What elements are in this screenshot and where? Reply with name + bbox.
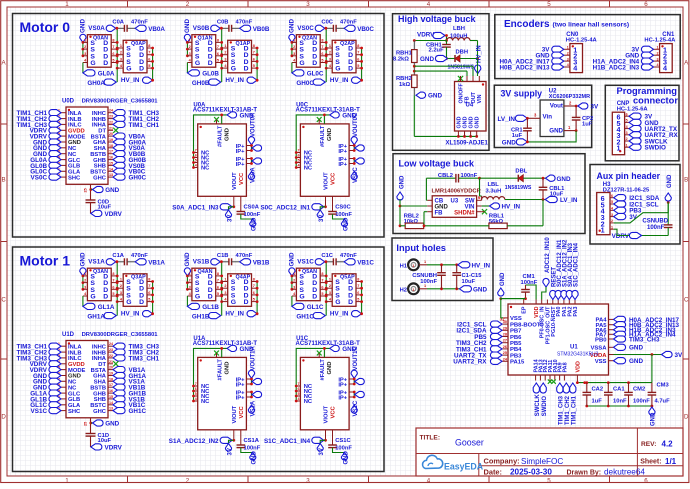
svg-text:10uF: 10uF [462,279,476,285]
frame row letters [1,60,689,421]
section box 3V supply [494,85,591,147]
net flag PB3 at H3 pin 4 [614,207,642,215]
svg-text:GND: GND [629,345,643,352]
svg-text:VS1A: VS1A [88,259,105,266]
svg-text:2: 2 [186,478,190,485]
capacitor CBL2 100nF [438,173,480,183]
net flag H1B_ADC2_IN3 at U1 right [614,327,677,335]
section box Motor 1 [13,247,385,472]
resistor RBL2 10k [404,214,424,229]
svg-text:7: 7 [298,382,300,386]
wire IP+ pins upper pair U1A [250,378,262,386]
net flag VB1A [135,259,165,267]
section title Input holes [396,243,446,253]
net flag VS1C [351,400,359,416]
svg-text:4: 4 [567,63,569,67]
power flag GND above snubber [665,174,673,203]
net flag VB0A at U0D pin 20 [113,133,146,141]
svg-text:GND: GND [549,128,563,135]
svg-text:8: 8 [357,278,359,282]
svg-text:VSS: VSS [510,316,522,322]
svg-text:7: 7 [195,382,197,386]
svg-text:VOUT1A: VOUT1A [250,345,256,370]
svg-text:GND: GND [428,93,442,100]
net flag GL0A at U0D pin 9 [30,157,61,165]
wire VDDA to 3V [614,353,662,356]
svg-text:1N5819WS: 1N5819WS [505,185,532,191]
net flag VOUT0A [248,112,256,145]
svg-text:PB7: PB7 [510,329,522,335]
no-connect mark at U0D DT pin [113,128,118,133]
net flag VS1A at U1D pin 18 [113,378,145,386]
svg-text:100nF: 100nF [244,212,261,218]
svg-text:6: 6 [112,285,114,289]
svg-text:IP+: IP+ [236,149,245,155]
svg-text:24: 24 [109,342,113,346]
net flag TIM3_CH1 at U1 left [456,346,502,354]
svg-text:6: 6 [253,291,255,295]
svg-text:SWCLK: SWCLK [535,394,541,417]
no-connect mark at U0C fault pin [317,117,322,124]
power flag GND above U1C [330,345,357,353]
net flag HV_IN near Q0AP [121,77,154,84]
capacitor CA1 10nF [604,383,627,406]
wire capacitor C0A to VB0A [127,27,135,29]
svg-text:2: 2 [224,284,226,288]
svg-text:5: 5 [148,298,150,302]
capacitor C0A 470nF [112,19,148,32]
power flag GND below CS0C [333,214,350,231]
net flag TIM3_CH2 at U1D pin 2 [17,349,61,357]
section box Encoders [495,15,680,79]
svg-text:VCC: VCC [331,172,337,185]
power flag GND at U1 VSS [614,358,644,366]
svg-text:VB0B: VB0B [253,26,270,33]
wire ground net of U0A [192,114,235,169]
net flag VOUT1C [351,345,359,378]
svg-text:Date:: Date: [484,468,502,477]
wire SW node [478,177,518,201]
svg-text:TIM1_CH3: TIM1_CH3 [559,395,565,425]
svg-text:VCC: VCC [239,405,245,418]
net flag GL1A [83,303,115,311]
title block REV field [641,439,673,448]
connector CN1 HC-1.25-4A [644,32,676,73]
svg-text:6: 6 [298,387,300,391]
svg-text:5: 5 [217,59,219,63]
svg-text:23: 23 [109,115,113,119]
svg-text:25: 25 [84,422,88,426]
wire gate low GL0A [82,63,84,73]
svg-text:VDRV: VDRV [105,445,123,452]
power flag GND below decoupling bus [649,407,657,426]
svg-text:SimpleFOC: SimpleFOC [521,457,563,466]
net flag TIM3_CH2 at U1D pin 23 [113,349,159,357]
svg-text:UART2_RX: UART2_RX [453,359,487,366]
svg-text:Vin: Vin [543,114,553,121]
svg-text:1: 1 [412,288,414,292]
wire U2 ground return [526,129,577,143]
net flag TIM3_CH2 at U1 left [456,340,502,348]
svg-text:U1: U1 [570,345,578,351]
svg-text:3V supply: 3V supply [501,88,543,98]
svg-text:13: 13 [109,407,113,411]
power flag GND at DBL [546,175,571,183]
power flag GND below CS1C [333,448,350,465]
svg-text:1: 1 [329,44,331,48]
svg-text:6: 6 [611,194,613,198]
wire gate low GL1C [291,296,293,306]
net flag SWDIO at CNP pin 1 [629,144,666,152]
svg-text:GND: GND [105,187,119,194]
net flag GND at U1D pin 8 [33,384,61,392]
transistor Q1AN [187,35,221,67]
svg-text:G: G [90,294,95,301]
wire capacitor C1D to VDRV [90,436,92,447]
svg-text:DRV8300DRGER_C3655801: DRV8300DRGER_C3655801 [82,332,159,338]
svg-text:GND: GND [224,362,230,375]
svg-text:D: D [139,66,144,73]
diode DBH 1N5819WS [448,49,478,70]
svg-text:2.2uF: 2.2uF [429,48,445,54]
svg-text:D: D [244,299,249,306]
section box Input holes [392,238,493,301]
svg-text:100nF: 100nF [244,445,261,451]
svg-text:XL1509-ADJE1: XL1509-ADJE1 [446,140,489,146]
net flag TIM1_CH3 at U0D pin 3 [17,121,61,129]
power flag GND below CS0A [241,214,258,231]
net flag HV_IN at U3 VIN [482,203,521,211]
svg-text:8.2kΩ: 8.2kΩ [393,56,409,62]
net flag TIM1_CH2 below U1 [563,383,571,425]
svg-text:HV_IN: HV_IN [330,77,349,84]
svg-text:6: 6 [357,57,359,61]
svg-text:18: 18 [109,144,113,148]
net flag GH0C [296,79,325,87]
svg-text:D: D [244,66,249,73]
svg-text:GND: GND [469,116,475,128]
net flag 3V at CN1 pin 1 [631,46,653,54]
svg-text:#FAULT: #FAULT [217,359,223,381]
svg-text:IP+: IP+ [338,382,347,388]
svg-text:5: 5 [112,59,114,63]
svg-text:GHC: GHC [93,409,107,415]
svg-text:IP+: IP+ [338,162,347,168]
svg-text:Aux pin header: Aux pin header [597,171,661,181]
gate driver U0D DRV8300 [56,99,158,185]
net flag VS0A [248,167,256,183]
svg-text:3: 3 [611,213,613,217]
power flag GND below CS1A [241,448,258,465]
wire phase rail Q0AN/Q0AP [116,28,119,82]
svg-text:14: 14 [109,167,113,171]
svg-text:2: 2 [657,51,659,55]
svg-text:Vout: Vout [550,102,563,109]
svg-text:VIOUT: VIOUT [232,172,238,190]
svg-text:VS1C: VS1C [297,259,314,266]
capacitor C1A 470nF [112,253,148,266]
wire IP+ pins lower pair U1C [353,391,365,399]
net flag HV_IN near Q2AP [330,77,363,84]
current sensor U0A ACS711 [193,103,258,212]
svg-text:G: G [195,60,200,67]
transistor Q5AN [292,268,326,301]
power flag 3V at U2 output [575,103,599,111]
svg-text:Encoders: Encoders [504,19,550,30]
svg-text:VOUT0C: VOUT0C [353,112,359,137]
wire inductor to VIN rail [470,41,479,60]
net flag VOUT0C [351,112,359,145]
svg-text:PB6: PB6 [510,335,522,341]
section box Motor 0 [13,14,385,238]
svg-text:1: 1 [412,264,414,268]
power flag VDRV in aux header [612,232,642,240]
net flag VS1A [248,400,256,416]
svg-text:5: 5 [195,392,197,396]
no-connect mark at U1C fault pin [317,351,322,358]
svg-text:VS0C: VS0C [31,175,48,182]
wire HV rail Q5AP [360,280,363,314]
svg-text:G: G [335,66,340,73]
wire source rail Q5AN [291,275,294,291]
svg-text:1: 1 [617,144,621,153]
svg-text:22: 22 [109,120,113,124]
power flag GND above U1 [498,272,506,300]
svg-text:20: 20 [109,132,113,136]
capacitor CM2 100nF [624,383,650,406]
svg-text:6: 6 [321,52,323,56]
svg-text:VIOUT: VIOUT [324,172,330,190]
svg-text:VCC: VCC [331,405,337,418]
net flag VS0A at U0D pin 18 [113,145,145,153]
svg-text:VB1C: VB1C [357,259,374,266]
section title Encoders [504,19,629,30]
svg-text:7: 7 [148,284,150,288]
svg-text:GND: GND [420,56,434,63]
inductor LBH 100uH [447,26,470,41]
net flag S0C_ADC12_IN1 above U1 [555,239,563,300]
svg-text:CSNUBD: CSNUBD [642,219,668,225]
net flag VS0B at U0D pin 15 [113,162,145,170]
net flag H0A_ADC2_IN17 at U1 right [614,316,680,324]
svg-text:6: 6 [626,112,628,116]
svg-text:GND: GND [667,174,673,188]
svg-text:GH0A: GH0A [87,80,105,87]
svg-text:7: 7 [253,284,255,288]
svg-text:5: 5 [357,64,359,68]
svg-text:Motor 1: Motor 1 [20,253,71,269]
svg-text:VB0A: VB0A [148,26,165,33]
power flag 3V below U0A [225,207,233,222]
EasyEDA logo [423,455,484,471]
svg-text:4.7uF: 4.7uF [655,399,671,405]
svg-text:4: 4 [195,397,197,401]
svg-text:1: 1 [567,46,569,50]
mounting hole H2 [400,283,419,294]
net flag TIM3_CH1 at U1D pin 22 [113,355,159,363]
svg-text:GND: GND [456,116,462,128]
net flag HV_IN near Q1AP [225,77,258,84]
net flag VB1A at U1D pin 20 [113,367,146,375]
transistor Q2AN [292,35,326,67]
title block Drawn By field [567,468,646,477]
wire IP+ pins upper pair U0A [250,144,262,152]
svg-text:G: G [126,299,131,306]
wire VS0B to capacitor C0B [220,27,229,30]
svg-text:GL1A: GL1A [98,304,115,311]
svg-text:S0C_ADC12_IN1: S0C_ADC12_IN1 [260,204,310,211]
net flag GL1C [292,303,324,311]
svg-text:GND: GND [80,252,87,266]
net flag VOUT1A [248,345,256,378]
svg-text:IP+: IP+ [236,395,245,401]
svg-text:VS0C: VS0C [297,25,314,32]
wire capacitor C0C to VB0C [336,27,344,29]
svg-text:LBL: LBL [488,182,500,188]
svg-text:PB5: PB5 [510,341,522,347]
svg-text:1: 1 [626,143,628,147]
transistor Q3AP [117,274,152,307]
wire VS0A to capacitor C0A [116,27,125,30]
svg-text:GND: GND [475,116,481,128]
wire HV rail Q4AP [256,280,259,314]
svg-text:13: 13 [109,173,113,177]
svg-text:2: 2 [224,51,226,55]
net flag GND at U0D pin 8 [33,151,61,159]
power flag 3V at U1 VDDA [662,351,684,359]
net flag VS0A [88,25,116,32]
svg-text:G: G [299,60,304,67]
svg-text:1: 1 [611,225,613,229]
power flag GND above U1A [227,345,254,353]
wire VS1A to capacitor C1A [116,260,125,263]
svg-text:VS0A: VS0A [88,25,105,32]
svg-text:GND: GND [629,358,643,365]
wire H2 to GND [419,284,460,290]
svg-text:4: 4 [611,207,613,211]
svg-text:HV_IN: HV_IN [121,311,140,318]
svg-text:Input holes: Input holes [396,243,446,253]
svg-text:6: 6 [112,52,114,56]
svg-text:#FAULT: #FAULT [320,125,326,147]
resistor RBL1 56k [489,214,507,229]
svg-text:GL1C: GL1C [307,304,324,311]
svg-text:VOUT0A: VOUT0A [250,112,256,137]
capacitor C1-C15 10uF [452,265,482,289]
svg-text:2: 2 [329,284,331,288]
net flag TIM3_CH3 at U1D pin 3 [17,355,61,363]
svg-text:PB4: PB4 [510,347,522,353]
power flag GND at 3V supply [502,139,528,147]
net flag VB1B at U1D pin 17 [113,384,146,392]
net flag VB1B [240,259,270,267]
wire HV rail Q0AP [151,47,154,81]
svg-text:3: 3 [306,478,310,485]
net flag LV_IN at U2 [498,115,528,123]
svg-text:PA15: PA15 [510,360,525,366]
net flag GND at U1D pin 6 [33,372,61,380]
svg-text:G: G [231,66,236,73]
svg-text:1: 1 [329,278,331,282]
svg-text:1uF: 1uF [512,133,523,139]
svg-text:17: 17 [109,383,113,387]
svg-text:100uH: 100uH [450,33,467,39]
svg-text:3: 3 [293,52,295,56]
net flag GH1A at U1D pin 19 [113,372,146,380]
transistor Q0AN [83,35,117,67]
wire source rail Q3AN [82,275,85,291]
svg-text:C0B: C0B [217,19,229,25]
svg-text:3: 3 [120,291,122,295]
svg-text:HC-1.25-4A: HC-1.25-4A [566,38,598,44]
svg-text:23: 23 [109,348,113,352]
svg-text:S1C_ADC1_IN4: S1C_ADC1_IN4 [574,242,580,287]
svg-text:7: 7 [298,149,300,153]
svg-text:U0D: U0D [62,99,75,105]
wire VS1B to capacitor C1B [220,260,229,263]
svg-text:7: 7 [148,51,150,55]
capacitor CA2 1uF [583,383,604,406]
net flag GH1C at U1D pin 13 [113,408,146,416]
svg-text:29: 29 [503,326,507,330]
transistor Q3AN [83,268,117,301]
svg-text:VSS: VSS [595,359,607,365]
wire HV rail Q2AP [360,47,363,81]
net flag SWCLK below U1 [533,383,541,416]
capacitor C1B 470nF [217,253,253,266]
svg-text:3V: 3V [319,215,325,222]
svg-text:7: 7 [321,279,323,283]
svg-text:16: 16 [109,389,113,393]
svg-text:PA8: PA8 [562,362,568,372]
svg-text:D: D [312,294,317,301]
svg-text:5: 5 [357,298,359,302]
transistor Q2AP [326,40,361,73]
net flag I2C1_SCL at H3 pin 5 [614,201,659,209]
net flag S0A_ADC1_IN3 above U1 [566,242,574,299]
svg-text:VSSA: VSSA [590,346,607,352]
svg-text:VS1A: VS1A [250,400,256,416]
svg-text:2: 2 [186,1,190,8]
svg-text:100nF: 100nF [335,445,352,451]
net flag SWDIO below U1 [540,383,548,416]
power flag GND above U0A [227,112,254,120]
svg-text:HV_IN: HV_IN [502,204,521,211]
capacitor C0D0D 10uF [86,199,112,210]
svg-text:15: 15 [109,395,113,399]
svg-text:5: 5 [547,478,551,485]
svg-text:10uF: 10uF [98,204,112,210]
svg-text:28: 28 [503,333,507,337]
svg-text:D: D [348,299,353,306]
net flag TIM1_CH3 at U0D pin 24 [113,110,159,118]
svg-text:2: 2 [189,45,191,49]
net flag HV_IN near Q3AP [121,311,154,318]
svg-text:6: 6 [253,57,255,61]
ground flag Q4AN group [184,252,191,276]
svg-text:GND: GND [327,128,333,141]
wire capacitor C1C to VB1C [336,261,344,263]
svg-text:10nF: 10nF [613,399,627,405]
svg-text:DBL: DBL [515,169,527,175]
svg-text:SWDIO: SWDIO [542,396,548,417]
svg-text:6: 6 [148,57,150,61]
capacitor CBH1 2.2uF [426,41,451,60]
svg-text:14: 14 [109,401,113,405]
net flag TIM1_CH2 at U0D pin 2 [17,116,61,124]
svg-text:CS0A: CS0A [244,205,260,211]
svg-text:2: 2 [84,279,86,283]
